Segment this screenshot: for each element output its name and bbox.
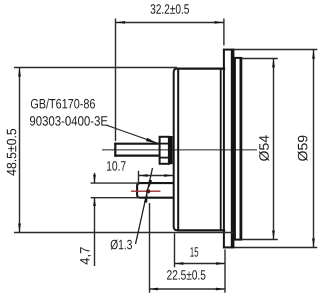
dim 32.2 left extension line xyxy=(115,19,117,142)
dim 4,7 upper extension line xyxy=(91,182,139,184)
bezel ring d59 left edge xyxy=(223,49,225,249)
dim d54 top extension line xyxy=(242,58,277,60)
dim 10.7 extension line xyxy=(138,171,140,183)
dim text 4,7 xyxy=(80,247,91,264)
dim text d59 xyxy=(298,136,308,161)
dim text 15 xyxy=(190,247,198,257)
front ring d54 top edge xyxy=(234,57,242,59)
hex nut flat line upper xyxy=(160,143,169,145)
dim 4,7 lower arrow (pointing up) xyxy=(93,198,96,206)
stem tube tip edge xyxy=(114,143,116,157)
dim text 48.5 xyxy=(7,129,17,176)
dim text 10.7 xyxy=(107,161,126,171)
dim 15 extension line xyxy=(174,234,176,268)
dim 4,7 upper arrow (pointing down) xyxy=(93,175,96,183)
dim 10.7 line xyxy=(139,175,173,177)
dim 15 line xyxy=(174,263,225,265)
front ring d54 bottom edge xyxy=(234,239,242,241)
dim d54 bottom extension line xyxy=(242,239,277,241)
dim d54 line xyxy=(273,59,275,240)
dim 22.5 line xyxy=(149,288,225,290)
dim d59 top arrow xyxy=(312,50,315,59)
front ring d54 right edge xyxy=(239,57,242,240)
dim 4,7 lower extension line xyxy=(91,197,139,199)
gauge case body top edge xyxy=(177,67,225,69)
dim 48.5 top arrow xyxy=(18,68,21,77)
dim text d54 xyxy=(259,135,269,161)
dim 22.5 right arrow xyxy=(216,288,225,291)
front ring d54 left edge xyxy=(234,57,236,240)
stem tube bottom edge xyxy=(114,155,159,157)
dim 48.5 bottom arrow xyxy=(18,224,21,233)
dim d59 bottom extension line xyxy=(234,247,317,249)
dim 10.7 left arrow xyxy=(139,174,148,177)
dim 22.5 left extension line xyxy=(149,203,151,293)
dim 48.5 line xyxy=(19,68,21,232)
gauge case body bottom edge xyxy=(177,229,225,231)
dim d59 line xyxy=(313,50,315,248)
hex nut flat line lower xyxy=(160,157,169,159)
dim 15 right arrow xyxy=(216,262,225,265)
dim d54 top arrow xyxy=(272,58,275,67)
dim 22.5 right extension line xyxy=(224,249,226,292)
dim 10.7 right arrow xyxy=(164,174,173,177)
hex nut outline xyxy=(160,137,169,164)
bezel ring d59 top edge xyxy=(223,49,235,51)
dim 4,7 line lower segment xyxy=(94,198,96,266)
mounting tab outline xyxy=(137,183,174,198)
tab hole d1.3 xyxy=(146,189,150,193)
d1.3 upper arrowhead xyxy=(149,180,153,189)
dim text 32.2 xyxy=(151,4,189,14)
dim 48.5 bottom extension line xyxy=(14,232,234,234)
washer dark strip xyxy=(169,136,173,164)
bezel ring d59 bottom edge xyxy=(223,246,235,248)
d1.3 lower arrowhead xyxy=(144,194,148,203)
leader arrowhead at nut xyxy=(146,138,157,144)
dim 15 left arrow xyxy=(174,262,183,265)
dim 22.5 left arrow xyxy=(149,288,158,291)
bezel inner lip line xyxy=(220,69,222,231)
dim 32.2 left arrow xyxy=(116,21,125,24)
dim d54 bottom arrow xyxy=(272,231,275,240)
dim 32.2 right arrow xyxy=(215,21,224,24)
dim text d1.3 xyxy=(111,240,132,250)
stem tube top edge xyxy=(114,143,159,145)
dim 32.2 right extension line xyxy=(223,19,225,46)
gauge case back wall (rounded corners) xyxy=(174,69,178,231)
dim d59 bottom arrow xyxy=(312,238,315,247)
centerline (stem axis) xyxy=(102,149,257,151)
dim 32.2 line xyxy=(116,22,224,24)
tab hole red centerline xyxy=(131,190,161,192)
leader line for d1.3 xyxy=(136,168,153,244)
case back seam line xyxy=(177,69,179,230)
dim 4,7 line upper segment xyxy=(94,173,96,183)
note GB/T6170-86 xyxy=(31,99,95,109)
dim d59 top extension line xyxy=(234,49,317,51)
dim text 22.5 xyxy=(167,270,205,280)
leader line to stem nut xyxy=(107,125,158,143)
note 90303-0400-3E xyxy=(30,116,108,126)
dim 48.5 top extension line xyxy=(14,67,177,69)
bezel ring d59 right edge xyxy=(231,49,235,249)
